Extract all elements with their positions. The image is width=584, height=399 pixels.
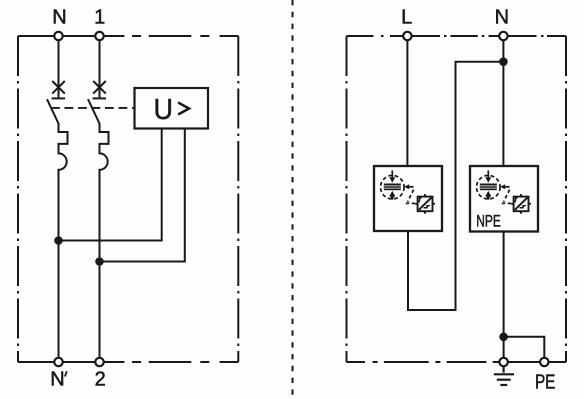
svg-text:L: L bbox=[401, 7, 412, 29]
label N' bbox=[50, 369, 67, 391]
breaker pole 1 blade bbox=[47, 99, 59, 124]
SPD 2 varistor bbox=[511, 194, 531, 214]
SPD 2 spark gap dashed circle bbox=[477, 175, 501, 199]
SPD 1 spark gap electrodes bbox=[384, 184, 401, 191]
ground symbol bbox=[494, 366, 514, 385]
breaker pole 1 thermal and magnetic release, wire to junction bbox=[59, 123, 68, 358]
svg-text:N: N bbox=[495, 7, 509, 29]
SPD 1 box bbox=[374, 166, 442, 231]
enclosure border right device (dash-dot) bbox=[347, 36, 567, 362]
undervoltage release box U> bbox=[135, 88, 209, 129]
breaker pole 2 thermal and magnetic release, wire to terminal 2 bbox=[100, 123, 109, 358]
SPD 2 top arrow bbox=[485, 170, 491, 183]
SPD 2 bottom double arrow bbox=[485, 191, 491, 201]
mechanical linkage dashed bbox=[51, 107, 135, 109]
terminal L bbox=[403, 32, 411, 40]
SPD 1 varistor bbox=[415, 194, 435, 214]
svg-text:N: N bbox=[52, 7, 66, 29]
SPD 1 bottom double arrow bbox=[389, 191, 395, 201]
svg-text:2: 2 bbox=[95, 369, 106, 391]
panel separator dashed line bbox=[292, 0, 294, 399]
SPD 1 top arrow bbox=[389, 170, 395, 183]
wire N vertical (left pole) bbox=[58, 40, 60, 81]
wire SPD1 bottom to N junction bbox=[408, 62, 500, 310]
breaker pole 2 blade bbox=[88, 99, 100, 124]
wire N down to SPD 2 bbox=[502, 40, 504, 166]
svg-text:1: 1 bbox=[94, 7, 105, 29]
wire 1 vertical (right pole) bbox=[99, 40, 101, 81]
svg-text:N: N bbox=[50, 369, 64, 391]
terminal N right bbox=[499, 32, 507, 40]
junction dot on N wire bbox=[499, 57, 508, 66]
SPD 2 trigger arrow bbox=[500, 184, 511, 203]
wire from U> to N line junction bbox=[59, 129, 162, 241]
SPD 1 trigger arrow bbox=[404, 184, 415, 203]
junction dot on line 2 bbox=[95, 257, 104, 266]
terminal 2 bottom bbox=[95, 358, 103, 366]
SPD 2 box (NPE) bbox=[470, 166, 538, 232]
wire SPD2 bottom to ground bbox=[503, 231, 505, 358]
junction dot on N line bbox=[54, 236, 63, 245]
terminal N top bbox=[54, 32, 62, 40]
svg-text:PE: PE bbox=[535, 371, 556, 393]
svg-text:NPE: NPE bbox=[476, 212, 501, 231]
wire L down to SPD 1 bbox=[406, 40, 408, 166]
wire junction to PE terminal bbox=[504, 337, 545, 358]
svg-text:U: U bbox=[154, 94, 174, 126]
enclosure border left device (dash-dot) bbox=[18, 36, 238, 362]
wire from U> to line 2 junction bbox=[100, 129, 185, 262]
terminal 1 top bbox=[95, 32, 103, 40]
terminal N' bottom bbox=[54, 358, 62, 366]
breaker pole 1 contact cross bbox=[52, 81, 65, 98]
breaker pole 2 contact cross bbox=[93, 81, 106, 98]
SPD 2 spark gap electrodes bbox=[480, 184, 497, 191]
terminal ground bbox=[499, 358, 507, 366]
terminal PE bbox=[540, 358, 548, 366]
junction dot above ground bbox=[499, 333, 508, 342]
SPD 1 spark gap dashed circle bbox=[381, 175, 405, 199]
